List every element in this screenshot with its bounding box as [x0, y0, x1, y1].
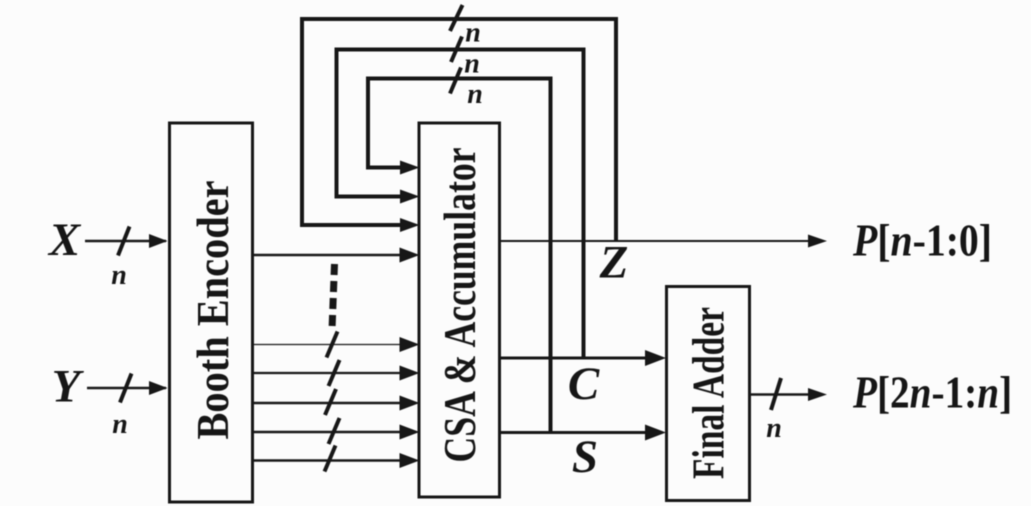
svg-text:Booth Encoder: Booth Encoder [187, 181, 238, 440]
svg-text:n: n [467, 79, 483, 110]
svg-text:n: n [112, 409, 128, 440]
svg-text:Y: Y [52, 361, 85, 413]
svg-text:C: C [568, 358, 600, 410]
svg-text:CSA & Accumulator: CSA & Accumulator [434, 148, 485, 463]
svg-text:n: n [766, 413, 782, 444]
svg-text:n: n [464, 49, 480, 80]
svg-text:Final Adder: Final Adder [683, 307, 734, 479]
svg-text:P[2n-1:n]: P[2n-1:n] [852, 368, 1012, 419]
svg-text:n: n [111, 260, 127, 291]
svg-text:S: S [572, 431, 598, 483]
svg-text:P[n-1:0]: P[n-1:0] [852, 216, 992, 266]
svg-text:Z: Z [599, 237, 629, 289]
svg-text:X: X [47, 214, 82, 266]
svg-text:n: n [465, 18, 481, 49]
